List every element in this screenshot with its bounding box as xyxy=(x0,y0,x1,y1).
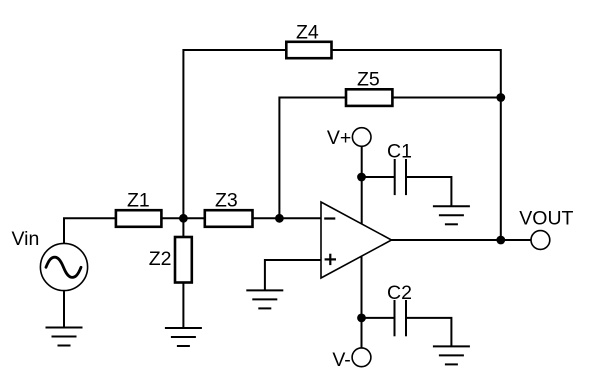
wire node A to Z2 xyxy=(182,218,184,237)
svg-text:Vin: Vin xyxy=(12,228,40,250)
resistor Z1 xyxy=(116,210,161,227)
svg-text:Z2: Z2 xyxy=(149,248,172,270)
wire op-amp output to VOUT xyxy=(392,239,532,241)
node E (output junction) xyxy=(496,236,505,245)
node B (Z3/Z5 junction) xyxy=(275,214,284,223)
wire Z2 to ground xyxy=(182,283,184,329)
wire node D to C1 xyxy=(362,176,395,178)
node A (Z1/Z2/Z3/Z4 junction) xyxy=(179,214,188,223)
svg-text:V-: V- xyxy=(332,349,350,371)
wire Z4 to output node xyxy=(332,50,501,240)
wire Vin to ground xyxy=(63,291,65,328)
svg-text:Z4: Z4 xyxy=(296,22,319,44)
wire C2 to ground xyxy=(406,318,451,347)
wire node F to C2 xyxy=(362,317,395,319)
wire Z3 to op-amp inverting input xyxy=(253,217,322,219)
ground (Vin) xyxy=(46,328,83,346)
wire V+ to op-amp xyxy=(361,146,363,223)
ground (C1) xyxy=(433,206,470,224)
wire Z1 to node A xyxy=(161,217,204,219)
minus symbol (inverting input) xyxy=(324,217,335,219)
svg-text:Z5: Z5 xyxy=(357,69,380,91)
wire Vin to Z1 xyxy=(64,218,116,243)
svg-text:Z3: Z3 xyxy=(215,190,238,212)
node D (V+/C1 junction) xyxy=(357,173,366,182)
source Vin xyxy=(40,243,87,290)
wire V- to op-amp xyxy=(361,256,363,348)
ground (Z2) xyxy=(165,328,202,346)
ground (C2) xyxy=(433,346,470,364)
svg-text:Z1: Z1 xyxy=(127,190,150,212)
resistor Z4 xyxy=(286,42,331,58)
wire non-inverting input to ground xyxy=(265,260,321,290)
wire Z5 to node C xyxy=(392,97,500,99)
wire node B up to Z5 xyxy=(279,98,346,219)
op-amp U1 xyxy=(321,202,392,278)
svg-text:C1: C1 xyxy=(387,141,412,163)
capacitor C1 xyxy=(395,159,406,195)
terminal V- xyxy=(352,348,371,367)
ground (op-amp + input) xyxy=(246,290,283,308)
resistor Z5 xyxy=(346,89,392,106)
node F (V-/C2 junction) xyxy=(357,314,366,323)
resistor Z2 xyxy=(175,237,192,283)
wire node A up to Z4 xyxy=(183,50,286,218)
plus symbol (non-inverting input) xyxy=(325,254,336,265)
capacitor C2 xyxy=(395,300,407,336)
resistor Z3 xyxy=(205,210,253,227)
svg-text:V+: V+ xyxy=(327,127,351,149)
svg-text:VOUT: VOUT xyxy=(519,208,573,230)
svg-text:C2: C2 xyxy=(387,282,412,304)
wire C1 to ground xyxy=(406,177,451,206)
terminal VOUT xyxy=(531,231,550,250)
node C (Z5/Z4 output junction) xyxy=(496,93,505,102)
terminal V+ xyxy=(352,128,371,147)
